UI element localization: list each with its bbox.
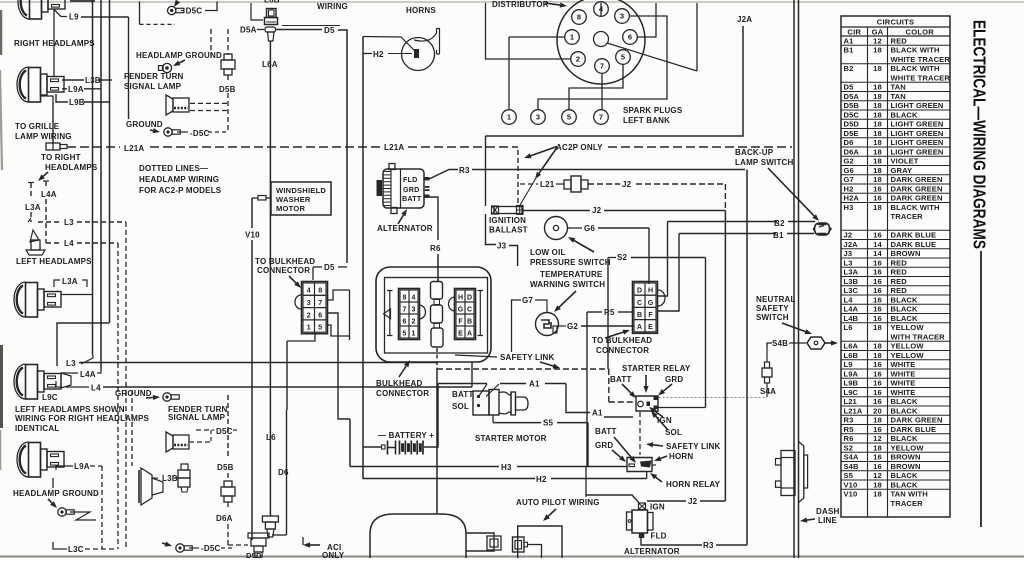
svg-text:L3C: L3C bbox=[844, 286, 859, 295]
svg-text:18: 18 bbox=[873, 351, 882, 360]
svg-text:V10: V10 bbox=[245, 231, 260, 240]
svg-text:L6: L6 bbox=[844, 323, 853, 332]
svg-text:7: 7 bbox=[599, 113, 603, 122]
svg-text:L6A: L6A bbox=[262, 60, 278, 69]
starter motor bbox=[370, 514, 466, 558]
svg-text:G: G bbox=[648, 300, 654, 307]
svg-text:18: 18 bbox=[873, 443, 882, 452]
low oil pressure switch bbox=[545, 217, 568, 240]
svg-text:16: 16 bbox=[873, 462, 882, 471]
ignition ballast bbox=[494, 207, 522, 214]
wire elbows upper-left bbox=[41, 96, 53, 103]
svg-text:SIGNAL LAMP: SIGNAL LAMP bbox=[168, 413, 226, 422]
dashed wire x118 bbox=[117, 243, 119, 549]
right headlamp upper (cut at top) bbox=[18, 0, 65, 19]
wire J2 solid bbox=[523, 210, 590, 212]
svg-text:SAFETY LINK: SAFETY LINK bbox=[666, 442, 721, 451]
svg-text:E: E bbox=[648, 324, 653, 331]
svg-text:BLACK: BLACK bbox=[891, 406, 918, 415]
wire H2 horn bbox=[363, 53, 372, 55]
svg-text:H: H bbox=[648, 288, 653, 295]
svg-text:BLACK WITH: BLACK WITH bbox=[891, 64, 940, 73]
svg-text:A1: A1 bbox=[592, 409, 603, 418]
svg-text:YELLOW: YELLOW bbox=[891, 342, 925, 351]
svg-text:H3: H3 bbox=[844, 203, 854, 212]
socket L3B bbox=[178, 470, 190, 478]
ground D5C top bbox=[168, 6, 176, 14]
svg-text:D5A: D5A bbox=[844, 92, 860, 101]
arrows relay bbox=[622, 384, 631, 393]
svg-text:7: 7 bbox=[403, 306, 407, 313]
svg-text:TO BULKHEAD: TO BULKHEAD bbox=[255, 257, 315, 266]
svg-text:R3: R3 bbox=[703, 541, 714, 550]
horn symbol bbox=[402, 38, 435, 71]
svg-text:R5: R5 bbox=[844, 425, 855, 434]
distributor pin 5 bbox=[616, 50, 631, 65]
svg-text:HORN: HORN bbox=[669, 452, 693, 461]
svg-text:L6B: L6B bbox=[844, 351, 859, 360]
spark plug 7 bbox=[594, 110, 609, 125]
svg-text:5: 5 bbox=[621, 53, 625, 62]
svg-text:J2A: J2A bbox=[737, 15, 752, 24]
svg-text:WIRING FOR RIGHT HEADLAMPS: WIRING FOR RIGHT HEADLAMPS bbox=[15, 414, 150, 423]
dash line double bbox=[793, 0, 795, 558]
svg-text:6: 6 bbox=[628, 33, 632, 42]
fender turn signal lamp A bbox=[166, 95, 189, 115]
svg-text:G7: G7 bbox=[844, 175, 854, 184]
svg-text:L3A: L3A bbox=[62, 277, 78, 286]
svg-text:L9: L9 bbox=[69, 13, 79, 22]
arrow alternator bbox=[398, 215, 403, 224]
svg-text:1: 1 bbox=[570, 33, 574, 42]
arrow neutral switch bbox=[782, 323, 805, 332]
svg-text:L9C: L9C bbox=[844, 388, 859, 397]
svg-text:J2: J2 bbox=[622, 180, 632, 189]
svg-text:J3: J3 bbox=[844, 249, 853, 258]
svg-text:TAN: TAN bbox=[891, 83, 906, 92]
wire R6 bbox=[429, 197, 438, 240]
svg-text:16: 16 bbox=[873, 194, 882, 203]
svg-text:L3A: L3A bbox=[844, 268, 859, 277]
ground symbol A bbox=[162, 63, 171, 72]
svg-text:7: 7 bbox=[318, 300, 322, 307]
svg-text:D5: D5 bbox=[324, 263, 335, 272]
scan top edge bbox=[0, 1, 1024, 3]
bulkhead left grid 8-4 bbox=[399, 289, 420, 340]
alternator A terminals bbox=[425, 186, 430, 188]
horn relay bbox=[627, 458, 652, 472]
svg-text:GRAY: GRAY bbox=[891, 166, 913, 175]
dashed wires bottom-left bbox=[101, 466, 103, 549]
svg-text:LIGHT GREEN: LIGHT GREEN bbox=[891, 147, 944, 156]
distributor pin 7 bbox=[595, 59, 610, 74]
svg-text:18: 18 bbox=[873, 120, 882, 129]
svg-text:SPARK PLUGS: SPARK PLUGS bbox=[623, 106, 683, 115]
lamp socket D5A top bbox=[267, 9, 277, 18]
svg-text:G7: G7 bbox=[522, 296, 533, 305]
wire R3 vertical bbox=[746, 170, 748, 546]
svg-text:G6: G6 bbox=[844, 166, 854, 175]
svg-text:RED: RED bbox=[891, 268, 908, 277]
svg-text:DARK GREEN: DARK GREEN bbox=[891, 184, 943, 193]
svg-text:16: 16 bbox=[873, 277, 882, 286]
svg-text:LAMP WIRING: LAMP WIRING bbox=[15, 132, 72, 141]
svg-text:L9A: L9A bbox=[74, 462, 90, 471]
svg-text:L3A: L3A bbox=[25, 203, 41, 212]
svg-text:BLACK: BLACK bbox=[891, 397, 918, 406]
arrow to L3A/L4A wires bbox=[43, 172, 48, 176]
battery loop wires bbox=[424, 384, 438, 448]
svg-text:18: 18 bbox=[873, 129, 882, 138]
svg-text:16: 16 bbox=[873, 360, 882, 369]
svg-text:CIR: CIR bbox=[847, 27, 861, 36]
arrow headlamp ground bbox=[179, 60, 185, 63]
svg-text:L3: L3 bbox=[844, 258, 853, 267]
wires relay to J2/alternator bbox=[652, 464, 656, 466]
left headlamp upper bbox=[14, 282, 61, 317]
svg-text:LAMP SWITCH: LAMP SWITCH bbox=[735, 158, 794, 167]
svg-text:TRACER: TRACER bbox=[891, 499, 924, 508]
svg-text:12: 12 bbox=[873, 434, 882, 443]
wire x287 down bbox=[286, 341, 288, 410]
svg-text:R3: R3 bbox=[844, 416, 854, 425]
temperature warning switch bbox=[536, 313, 559, 336]
svg-text:BULKHEAD: BULKHEAD bbox=[376, 379, 423, 388]
svg-text:18: 18 bbox=[873, 83, 882, 92]
distributor body bbox=[557, 0, 645, 84]
svg-text:1: 1 bbox=[307, 325, 311, 332]
left headlamp lower bbox=[14, 364, 61, 399]
svg-text:-D5C: -D5C bbox=[190, 129, 209, 138]
svg-text:S4B: S4B bbox=[844, 462, 859, 471]
svg-text:16: 16 bbox=[873, 286, 882, 295]
svg-text:L9: L9 bbox=[844, 360, 853, 369]
headlamp4 connector bbox=[61, 373, 71, 388]
alternator B bbox=[632, 510, 648, 533]
svg-text:WIRING: WIRING bbox=[317, 2, 348, 11]
svg-text:WHITE: WHITE bbox=[891, 379, 916, 388]
svg-text:HEADLAMPS: HEADLAMPS bbox=[45, 163, 98, 172]
arrows AC2P bbox=[531, 147, 557, 156]
svg-text:STARTER RELAY: STARTER RELAY bbox=[622, 364, 691, 373]
alternator A ribs bbox=[390, 170, 392, 209]
svg-text:D5B: D5B bbox=[217, 463, 234, 472]
svg-text:18: 18 bbox=[873, 416, 882, 425]
svg-text:BATT: BATT bbox=[402, 194, 422, 203]
wire L9A dashed bottom bbox=[56, 466, 73, 470]
svg-text:S2: S2 bbox=[844, 443, 854, 452]
svg-text:CONNECTOR: CONNECTOR bbox=[257, 266, 310, 275]
svg-text:WINDSHIELD: WINDSHIELD bbox=[276, 186, 326, 195]
svg-text:H2: H2 bbox=[536, 475, 547, 484]
svg-text:DARK BLUE: DARK BLUE bbox=[891, 425, 937, 434]
svg-text:B2: B2 bbox=[774, 219, 785, 228]
svg-text:YELLOW: YELLOW bbox=[891, 351, 925, 360]
arrow to connector bbox=[289, 276, 296, 283]
svg-text:STARTER MOTOR: STARTER MOTOR bbox=[475, 434, 547, 443]
svg-text:8: 8 bbox=[318, 288, 322, 295]
svg-text:4: 4 bbox=[412, 294, 416, 301]
scan left edge streaks bbox=[0, 10, 2, 55]
svg-text:WHITE: WHITE bbox=[891, 369, 916, 378]
svg-text:HEADLAMP GROUND: HEADLAMP GROUND bbox=[13, 489, 99, 498]
svg-text:LINE: LINE bbox=[818, 516, 837, 525]
washer motor stub bbox=[252, 197, 258, 199]
bottom left headlamp bbox=[17, 442, 64, 477]
svg-text:18: 18 bbox=[873, 323, 882, 332]
svg-text:SOL: SOL bbox=[452, 402, 469, 411]
svg-text:6: 6 bbox=[403, 318, 407, 325]
wire L9 bbox=[54, 10, 67, 17]
svg-text:18: 18 bbox=[873, 175, 882, 184]
svg-text:16: 16 bbox=[873, 314, 882, 323]
svg-text:HEADLAMP GROUND: HEADLAMP GROUND bbox=[136, 51, 222, 60]
svg-text:D: D bbox=[467, 294, 472, 301]
connector 4-8 grid bbox=[302, 282, 328, 334]
wire A1 bbox=[438, 383, 487, 385]
wire vertical x53 bbox=[52, 103, 54, 144]
connector D-H grid bbox=[633, 282, 658, 334]
svg-text:B1: B1 bbox=[844, 46, 855, 55]
battery symbol bbox=[382, 445, 386, 449]
wire L4 dashed bbox=[46, 242, 62, 244]
starter relay bbox=[636, 396, 658, 411]
wire D5A-D5 bbox=[276, 29, 322, 31]
ground symbol mid bbox=[146, 396, 153, 399]
svg-text:ELECTRICAL—WIRING DIAGRAMS: ELECTRICAL—WIRING DIAGRAMS bbox=[970, 20, 990, 249]
windshield washer motor box bbox=[271, 182, 331, 215]
svg-text:BATT: BATT bbox=[595, 427, 617, 436]
svg-text:HORN RELAY: HORN RELAY bbox=[666, 480, 721, 489]
svg-text:GRD: GRD bbox=[665, 375, 683, 384]
bulkhead arrow mark bbox=[384, 309, 391, 319]
svg-text:CIRCUITS: CIRCUITS bbox=[877, 18, 914, 27]
svg-text:TAN WITH: TAN WITH bbox=[891, 490, 928, 499]
parking lamp bbox=[141, 468, 152, 505]
lamp sockets bottom-center bbox=[262, 516, 278, 522]
svg-text:ONLY: ONLY bbox=[322, 551, 345, 558]
svg-text:SAFETY LINK: SAFETY LINK bbox=[500, 353, 555, 362]
svg-text:DARK GREEN: DARK GREEN bbox=[891, 175, 943, 184]
svg-text:8: 8 bbox=[577, 13, 581, 22]
svg-text:L9B: L9B bbox=[69, 98, 85, 107]
svg-text:18: 18 bbox=[873, 157, 882, 166]
svg-text:D5A: D5A bbox=[240, 26, 257, 35]
svg-text:D5: D5 bbox=[324, 26, 335, 35]
svg-text:H2: H2 bbox=[373, 50, 384, 59]
arrow low oil bbox=[574, 240, 594, 252]
wire vertical x101 bbox=[100, 0, 102, 369]
wire HL3 socket bbox=[61, 294, 93, 296]
svg-text:L6B: L6B bbox=[264, 0, 280, 5]
wire L3B bbox=[62, 79, 84, 81]
wire J2A bbox=[486, 26, 744, 136]
arrow bulkhead bbox=[399, 366, 406, 377]
svg-text:C: C bbox=[637, 300, 642, 307]
svg-text:L9A: L9A bbox=[844, 369, 859, 378]
svg-text:6: 6 bbox=[318, 312, 322, 319]
inline connector L21/J2 bbox=[564, 180, 571, 189]
svg-text:B: B bbox=[467, 318, 472, 325]
svg-text:BLACK: BLACK bbox=[891, 480, 918, 489]
svg-text:J2: J2 bbox=[688, 497, 698, 506]
svg-text:DARK GREEN: DARK GREEN bbox=[891, 416, 943, 425]
svg-text:GROUND: GROUND bbox=[126, 120, 163, 129]
svg-text:12: 12 bbox=[873, 471, 882, 480]
ground symbol bottom-left bbox=[48, 499, 52, 503]
svg-text:GA: GA bbox=[872, 27, 884, 36]
svg-text:BROWN: BROWN bbox=[891, 462, 921, 471]
wires B2 B1 bbox=[668, 221, 778, 223]
svg-text:16: 16 bbox=[873, 379, 882, 388]
svg-text:L9B: L9B bbox=[844, 379, 859, 388]
svg-text:B: B bbox=[637, 312, 642, 319]
svg-text:L21: L21 bbox=[844, 397, 858, 406]
svg-text:DARK BLUE: DARK BLUE bbox=[891, 240, 937, 249]
svg-text:YELLOW: YELLOW bbox=[891, 443, 925, 452]
wire L3C dashed bbox=[60, 548, 67, 550]
svg-text:BLACK: BLACK bbox=[891, 314, 918, 323]
svg-text:J2: J2 bbox=[592, 206, 602, 215]
wire H2 bottom bbox=[363, 478, 535, 480]
wire V10 vertical bbox=[251, 198, 253, 228]
svg-text:A1: A1 bbox=[529, 380, 540, 389]
wire L9A bbox=[62, 88, 67, 90]
svg-text:RED: RED bbox=[891, 286, 908, 295]
wire into ballast left bbox=[485, 136, 487, 206]
svg-text:7: 7 bbox=[600, 62, 604, 71]
svg-text:18: 18 bbox=[873, 490, 882, 499]
circuits table bbox=[841, 16, 950, 517]
neutral safety switch symbol bbox=[807, 337, 825, 349]
svg-text:IDENTICAL: IDENTICAL bbox=[15, 424, 59, 433]
svg-text:WITH TRACER: WITH TRACER bbox=[891, 332, 946, 341]
arrow back-up switch bbox=[768, 168, 814, 216]
svg-text:D6A: D6A bbox=[844, 147, 860, 156]
svg-text:L6: L6 bbox=[266, 433, 276, 442]
svg-text:L9A: L9A bbox=[68, 85, 84, 94]
svg-text:D5: D5 bbox=[844, 83, 855, 92]
wire R3 bbox=[424, 177, 430, 180]
wire L4A dashed vertical bbox=[45, 181, 47, 188]
svg-text:S5: S5 bbox=[543, 419, 554, 428]
svg-text:BLACK: BLACK bbox=[891, 305, 918, 314]
wire L21A dashed bbox=[67, 146, 120, 148]
wire L6A vertical bbox=[269, 41, 271, 516]
spark plug 1 bbox=[502, 110, 517, 125]
svg-text:18: 18 bbox=[873, 64, 882, 73]
svg-text:SWITCH: SWITCH bbox=[756, 313, 789, 322]
svg-text:L4: L4 bbox=[844, 295, 854, 304]
svg-text:IGNITION: IGNITION bbox=[489, 216, 526, 225]
svg-text:5: 5 bbox=[318, 325, 322, 332]
svg-text:LEFT HEADLAMPS: LEFT HEADLAMPS bbox=[16, 257, 92, 266]
distributor pin 8 bbox=[572, 10, 587, 25]
svg-text:D5C: D5C bbox=[186, 7, 203, 16]
distributor pin 6 bbox=[623, 30, 638, 45]
svg-text:WASHER: WASHER bbox=[276, 195, 311, 204]
svg-text:18: 18 bbox=[873, 203, 882, 212]
svg-text:DOTTED LINES—: DOTTED LINES— bbox=[139, 164, 208, 173]
wire x57 from x109 bbox=[57, 323, 109, 366]
ground bottom D5C bbox=[176, 544, 184, 552]
svg-text:L3C: L3C bbox=[68, 545, 84, 554]
svg-text:DARK GREEN: DARK GREEN bbox=[891, 194, 943, 203]
alternator A body bbox=[383, 169, 424, 208]
distributor hub bbox=[594, 32, 609, 47]
svg-text:R6: R6 bbox=[430, 244, 441, 253]
svg-text:BLACK: BLACK bbox=[891, 434, 918, 443]
bulkhead right grid H-D bbox=[455, 289, 476, 340]
svg-text:HORNS: HORNS bbox=[406, 6, 436, 15]
wire G7 bbox=[512, 300, 522, 352]
svg-text:16: 16 bbox=[873, 425, 882, 434]
svg-text:AC2P ONLY: AC2P ONLY bbox=[556, 143, 603, 152]
svg-text:D5B: D5B bbox=[219, 85, 236, 94]
svg-text:RED: RED bbox=[891, 277, 908, 286]
fuse D5B bbox=[224, 54, 232, 60]
svg-text:A: A bbox=[467, 330, 472, 337]
svg-text:L4: L4 bbox=[64, 239, 74, 248]
svg-text:RED: RED bbox=[891, 258, 908, 267]
wire relay grd bbox=[658, 407, 706, 409]
svg-text:GRD: GRD bbox=[403, 185, 420, 194]
distributor pin 2 bbox=[571, 52, 586, 67]
svg-text:BROWN: BROWN bbox=[891, 249, 921, 258]
svg-text:3: 3 bbox=[412, 306, 416, 313]
svg-text:L9C: L9C bbox=[42, 393, 58, 402]
svg-text:S2: S2 bbox=[617, 253, 628, 262]
svg-text:DARK BLUE: DARK BLUE bbox=[891, 231, 937, 240]
svg-text:CONNECTOR: CONNECTOR bbox=[596, 346, 649, 355]
svg-text:18: 18 bbox=[873, 166, 882, 175]
svg-text:TEMPERATURE: TEMPERATURE bbox=[540, 270, 603, 279]
distributor pin 1 bbox=[565, 30, 580, 45]
svg-text:TAN: TAN bbox=[891, 92, 906, 101]
AC2P dashed vertical bbox=[517, 150, 519, 203]
svg-text:A: A bbox=[637, 324, 642, 331]
svg-text:16: 16 bbox=[873, 388, 882, 397]
svg-text:2: 2 bbox=[576, 55, 580, 64]
arrow distributor bbox=[545, 3, 560, 5]
svg-text:3: 3 bbox=[620, 12, 624, 21]
svg-text:5: 5 bbox=[403, 330, 407, 337]
svg-text:SAFETY: SAFETY bbox=[756, 304, 789, 313]
svg-text:NEUTRAL: NEUTRAL bbox=[756, 295, 796, 304]
svg-text:R6: R6 bbox=[844, 434, 854, 443]
svg-text:GRD: GRD bbox=[595, 441, 613, 450]
cut label top bbox=[70, 0, 95, 2]
svg-text:LIGHT GREEN: LIGHT GREEN bbox=[891, 129, 944, 138]
starter solenoid bbox=[473, 391, 489, 415]
svg-text:H: H bbox=[458, 294, 463, 301]
svg-text:18: 18 bbox=[873, 147, 882, 156]
svg-text:BROWN: BROWN bbox=[891, 453, 921, 462]
wire H2 long vertical bbox=[362, 37, 364, 480]
svg-text:D5D: D5D bbox=[844, 120, 860, 129]
svg-text:5: 5 bbox=[567, 113, 571, 122]
wire L4 riser bbox=[471, 362, 473, 387]
wire H3 bbox=[350, 466, 499, 468]
svg-text:-D5C: -D5C bbox=[201, 544, 220, 553]
svg-text:2: 2 bbox=[307, 312, 311, 319]
left headlamp marker lamp bbox=[30, 230, 39, 242]
svg-text:BATT: BATT bbox=[452, 390, 474, 399]
wire D6 vertical bbox=[286, 410, 288, 535]
svg-text:H2: H2 bbox=[844, 184, 854, 193]
svg-text:DISTRIBUTOR: DISTRIBUTOR bbox=[492, 0, 549, 9]
svg-text:J2A: J2A bbox=[844, 240, 859, 249]
